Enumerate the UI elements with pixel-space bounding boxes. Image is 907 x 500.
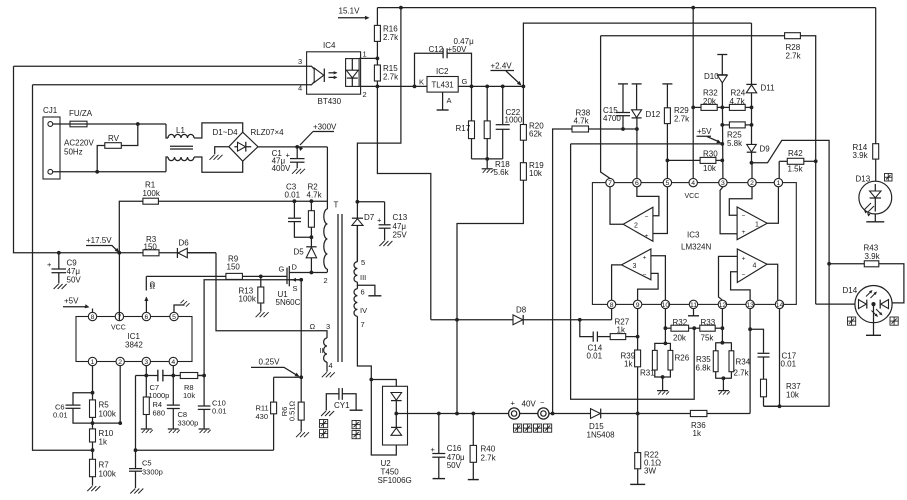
wire R38 sense xyxy=(553,129,572,414)
capacitor C16 xyxy=(438,414,440,454)
svg-text:20k: 20k xyxy=(703,97,717,106)
svg-text:4: 4 xyxy=(753,263,757,270)
resistor R39 xyxy=(637,309,639,350)
diode D15 xyxy=(591,409,601,419)
svg-text:RLZ07×4: RLZ07×4 xyxy=(251,128,285,137)
bridge rectifier D1-D4 xyxy=(229,132,258,161)
wire +5V rail xyxy=(571,143,723,145)
svg-text:1.5k: 1.5k xyxy=(788,165,804,174)
svg-text:680: 680 xyxy=(153,409,166,418)
svg-text:10k: 10k xyxy=(529,169,543,178)
svg-text:150: 150 xyxy=(144,243,158,252)
wire pin3 pin4 RC bus xyxy=(136,375,205,377)
svg-text:5: 5 xyxy=(361,258,365,267)
svg-text:+: + xyxy=(742,229,746,236)
svg-text:100k: 100k xyxy=(99,470,117,479)
wire +300V xyxy=(258,146,327,148)
label cold ground xyxy=(352,421,360,429)
wire winding pin7 to U2 xyxy=(357,316,371,379)
svg-text:10k: 10k xyxy=(183,391,195,400)
transformer winding III xyxy=(356,226,358,262)
svg-text:D12: D12 xyxy=(646,110,661,119)
resistor R42 xyxy=(778,161,780,178)
wire 15.1V rail xyxy=(377,7,875,9)
svg-text:R33: R33 xyxy=(701,318,716,327)
svg-text:1: 1 xyxy=(777,180,781,187)
svg-text:2: 2 xyxy=(118,359,122,366)
wire L top xyxy=(87,123,166,125)
svg-text:50Hz: 50Hz xyxy=(64,148,83,157)
resistor R38 xyxy=(572,126,589,132)
varistor RV xyxy=(97,146,105,172)
wire choke to bridge top xyxy=(194,123,243,138)
svg-text:AC220V: AC220V xyxy=(64,139,94,148)
svg-text:D14: D14 xyxy=(843,286,858,295)
svg-text:1: 1 xyxy=(91,359,95,366)
svg-text:+: + xyxy=(286,151,291,160)
wire D6 to winding II pin3 xyxy=(187,252,216,254)
diode D12 xyxy=(632,83,642,85)
resistor R2 xyxy=(310,201,312,211)
svg-text:3: 3 xyxy=(721,180,725,187)
diode D10 xyxy=(717,54,727,56)
resistor R14 xyxy=(875,8,877,144)
svg-text:+: + xyxy=(643,255,647,262)
wire diagonal D9 to R43 xyxy=(752,140,830,263)
dual LED D14 xyxy=(855,286,892,323)
svg-text:2: 2 xyxy=(750,180,754,187)
op-amp 3 xyxy=(622,249,651,280)
svg-text:D8: D8 xyxy=(516,306,527,315)
svg-text:A: A xyxy=(447,96,452,105)
wire drain xyxy=(289,272,327,274)
svg-text:5: 5 xyxy=(666,180,670,187)
winding tap 6 ground xyxy=(357,282,375,295)
wire K line xyxy=(359,85,427,87)
capacitor CY1 xyxy=(338,388,340,400)
transformer winding IV xyxy=(356,285,358,288)
svg-text:FU/ZA: FU/ZA xyxy=(69,109,93,118)
resistor R30 xyxy=(667,159,700,161)
svg-text:3842: 3842 xyxy=(125,341,143,350)
svg-text:R30: R30 xyxy=(703,150,718,159)
resistor R10 xyxy=(90,429,96,442)
svg-text:2: 2 xyxy=(324,276,328,285)
fuse FU/ZA xyxy=(53,123,70,125)
svg-text:VCC: VCC xyxy=(111,325,126,332)
regulator IC2 TL431 xyxy=(427,77,458,93)
resistors R35 R34 parallel xyxy=(721,309,723,343)
svg-text:+5V: +5V xyxy=(697,127,712,136)
svg-text:D10: D10 xyxy=(704,72,719,81)
svg-text:400V: 400V xyxy=(272,164,291,173)
diode D6 xyxy=(176,248,178,258)
resistor R32 bottom xyxy=(665,327,671,329)
wire +2.4V to D11 xyxy=(523,23,751,86)
svg-text:6: 6 xyxy=(361,288,365,297)
svg-text:2.7k: 2.7k xyxy=(734,369,750,378)
svg-text:C12: C12 xyxy=(429,45,444,54)
wire G +2.4V xyxy=(458,85,523,87)
svg-text:50V: 50V xyxy=(447,461,462,470)
IC3 LM324N box xyxy=(592,183,796,305)
svg-text:D11: D11 xyxy=(761,84,776,93)
opto arrows xyxy=(329,72,337,74)
svg-text:S: S xyxy=(293,284,298,293)
op-amp 1 xyxy=(737,207,767,240)
resistor R15 xyxy=(376,58,378,65)
svg-text:+: + xyxy=(511,399,516,408)
svg-text:+: + xyxy=(431,445,436,454)
svg-text:6: 6 xyxy=(635,180,639,187)
svg-text:75k: 75k xyxy=(701,334,715,343)
svg-text:1k: 1k xyxy=(617,326,626,335)
svg-text:2.7k: 2.7k xyxy=(674,115,690,124)
wire choke to bridge bottom xyxy=(194,157,243,172)
svg-text:0.01: 0.01 xyxy=(587,352,603,361)
opto LED xyxy=(307,66,315,69)
svg-text:4: 4 xyxy=(329,361,333,370)
svg-text:G: G xyxy=(462,77,468,86)
svg-text:13: 13 xyxy=(746,302,754,309)
svg-text:IC4: IC4 xyxy=(323,41,336,50)
svg-text:4.7k: 4.7k xyxy=(307,191,323,200)
wire pin2 feedback xyxy=(119,366,121,423)
resistor R17 xyxy=(471,86,473,121)
svg-text:7: 7 xyxy=(608,180,612,187)
svg-text:10: 10 xyxy=(662,302,670,309)
svg-text:4: 4 xyxy=(171,359,175,366)
svg-text:R17: R17 xyxy=(456,124,471,133)
capacitor C14 + R27 xyxy=(580,320,593,337)
svg-text:10k: 10k xyxy=(786,391,800,400)
output terminal minus xyxy=(538,408,549,419)
svg-text:R32: R32 xyxy=(673,318,688,327)
svg-text:2.7k: 2.7k xyxy=(383,73,399,82)
svg-text:6: 6 xyxy=(145,314,149,321)
svg-text:5.8k: 5.8k xyxy=(727,139,743,148)
svg-text:14: 14 xyxy=(776,302,784,309)
common-mode choke L1 xyxy=(168,134,194,138)
svg-text:R40: R40 xyxy=(481,445,496,454)
svg-text:1000: 1000 xyxy=(505,116,523,125)
resistor R5 xyxy=(92,393,94,400)
wire pin14 down xyxy=(779,309,781,407)
svg-text:CJ1: CJ1 xyxy=(43,106,58,115)
svg-text:9: 9 xyxy=(636,302,640,309)
svg-text:12: 12 xyxy=(719,302,727,309)
resistor R16 xyxy=(376,8,378,26)
resistor R1 xyxy=(119,201,143,253)
svg-text:C5: C5 xyxy=(142,459,152,468)
svg-text:11: 11 xyxy=(690,302,697,309)
svg-text:−: − xyxy=(742,213,746,220)
transformer winding II xyxy=(324,338,327,362)
wire +17.5V rail xyxy=(14,66,217,253)
wire divider bottom ground xyxy=(472,158,503,160)
svg-text:62k: 62k xyxy=(529,130,543,139)
wire 15.1V from winding III xyxy=(357,8,401,202)
svg-text:1: 1 xyxy=(755,222,759,229)
svg-text:5: 5 xyxy=(172,314,176,321)
svg-text:2.7k: 2.7k xyxy=(481,453,497,462)
svg-text:RV: RV xyxy=(108,134,120,143)
svg-text:1k: 1k xyxy=(99,438,108,447)
svg-text:II: II xyxy=(320,346,324,355)
svg-text:2.7k: 2.7k xyxy=(786,52,802,61)
svg-text:4: 4 xyxy=(298,84,302,93)
svg-text:50V: 50V xyxy=(67,276,82,285)
svg-text:8: 8 xyxy=(91,314,95,321)
wire pin1 divider xyxy=(92,366,94,393)
svg-text:0.51Ω: 0.51Ω xyxy=(288,401,297,422)
svg-text:2: 2 xyxy=(634,223,638,230)
output terminal plus xyxy=(508,408,519,419)
svg-text:6.8k: 6.8k xyxy=(696,364,712,373)
capacitor C1 xyxy=(296,147,298,158)
capacitor C5 xyxy=(135,376,137,451)
capacitor C3 xyxy=(293,201,295,218)
svg-text:430: 430 xyxy=(256,412,269,421)
svg-text:TL431: TL431 xyxy=(432,81,454,90)
resistor R32 top xyxy=(693,106,701,108)
resistor R36 xyxy=(690,410,707,416)
wire source xyxy=(289,279,301,281)
capacitor C15 xyxy=(618,83,628,85)
wire D14 ground xyxy=(873,304,875,335)
svg-text:4700: 4700 xyxy=(603,114,621,123)
svg-text:D: D xyxy=(292,263,298,272)
resistor R4 xyxy=(145,376,147,398)
opto photodiode xyxy=(351,59,353,71)
svg-text:25V: 25V xyxy=(393,231,408,240)
svg-text:R5: R5 xyxy=(99,401,110,410)
wire pin7 to +17.5V xyxy=(118,253,120,321)
svg-text:−: − xyxy=(645,214,649,221)
diode D9 xyxy=(747,144,757,152)
capacitor C10 xyxy=(203,376,205,406)
svg-text:1000p: 1000p xyxy=(149,391,170,400)
svg-text:+: + xyxy=(377,216,382,225)
resistor R7 xyxy=(90,459,96,476)
svg-text:C16: C16 xyxy=(447,444,462,453)
svg-text:+5V: +5V xyxy=(64,297,79,306)
svg-text:1k: 1k xyxy=(624,360,633,369)
svg-text:C13: C13 xyxy=(393,213,408,222)
svg-text:+17.5V: +17.5V xyxy=(86,236,112,245)
svg-text:1: 1 xyxy=(363,50,367,59)
svg-text:BT430: BT430 xyxy=(318,97,342,106)
wire N bottom xyxy=(53,171,166,173)
resistor R18 xyxy=(486,86,488,121)
capacitor C7 xyxy=(157,370,159,382)
svg-text:7: 7 xyxy=(361,320,365,329)
svg-text:−: − xyxy=(742,272,746,279)
svg-text:+50V: +50V xyxy=(448,45,468,54)
resistor R24 xyxy=(722,106,729,108)
resistor R3 xyxy=(143,250,159,256)
wire D13 ground xyxy=(874,214,876,222)
svg-text:1N5408: 1N5408 xyxy=(587,431,616,440)
svg-text:3.9k: 3.9k xyxy=(865,252,881,261)
op-amp 2 xyxy=(623,207,653,241)
svg-text:III: III xyxy=(360,273,366,282)
svg-text:+: + xyxy=(645,233,649,240)
svg-text:100k: 100k xyxy=(239,295,257,304)
resistor R28 xyxy=(601,35,785,37)
svg-text:IC3: IC3 xyxy=(687,231,700,240)
bridge ground xyxy=(215,147,229,155)
wire U2 loop xyxy=(369,378,373,382)
diode D7 xyxy=(352,217,363,219)
resistor R22 xyxy=(637,414,639,453)
svg-text:R26: R26 xyxy=(675,354,690,363)
wire opto feed to D8 comparator xyxy=(377,86,430,319)
wire opto pin1 xyxy=(359,57,377,59)
diode D5 xyxy=(306,246,316,248)
svg-text:D5: D5 xyxy=(294,248,305,257)
svg-text:3: 3 xyxy=(326,322,330,331)
svg-text:1k: 1k xyxy=(693,429,702,438)
wire VCC line xyxy=(692,8,694,179)
wire output rail xyxy=(396,413,508,415)
wire output sense to pin13 xyxy=(749,329,751,413)
wire pin3 sense xyxy=(204,280,301,376)
resistor R37 xyxy=(761,379,767,397)
svg-text:K: K xyxy=(419,78,424,87)
svg-text:3W: 3W xyxy=(644,467,656,476)
resistor R8 xyxy=(180,373,197,379)
svg-text:150: 150 xyxy=(227,263,241,272)
op-amp 4 xyxy=(737,249,767,283)
resistor R6 xyxy=(300,377,302,402)
label DC output xyxy=(514,424,522,432)
connector CJ1 xyxy=(43,117,60,179)
transformer core xyxy=(337,214,339,362)
wire pin13 line xyxy=(749,309,751,330)
resistor R9 xyxy=(146,275,226,277)
wire red LED drive xyxy=(815,161,817,304)
capacitor C17 xyxy=(750,329,763,353)
svg-text:G: G xyxy=(279,265,285,274)
svg-text:+: + xyxy=(742,256,746,263)
svg-text:3: 3 xyxy=(633,263,637,270)
wire +5V down leg xyxy=(571,144,695,399)
svg-text:4: 4 xyxy=(691,180,695,187)
capacitor C8 xyxy=(172,376,174,405)
wire D8 rail xyxy=(431,319,612,321)
svg-text:8: 8 xyxy=(610,302,614,309)
svg-text:SF1006G: SF1006G xyxy=(378,476,412,485)
svg-text:15.1V: 15.1V xyxy=(339,7,361,16)
svg-text:R7: R7 xyxy=(99,461,110,470)
svg-text:D1~D4: D1~D4 xyxy=(213,128,239,137)
svg-text:D7: D7 xyxy=(364,213,375,222)
svg-text:4.7k: 4.7k xyxy=(730,97,746,106)
svg-text:3300p: 3300p xyxy=(142,468,163,477)
net stub omega gate xyxy=(145,276,147,290)
resistor R11 xyxy=(273,414,275,450)
svg-text:D6: D6 xyxy=(179,239,190,248)
svg-text:0.01: 0.01 xyxy=(212,407,227,416)
svg-text:0.01: 0.01 xyxy=(53,411,68,420)
svg-text:10k: 10k xyxy=(703,164,717,173)
svg-text:2.7k: 2.7k xyxy=(383,33,399,42)
svg-text:−: − xyxy=(643,272,647,279)
svg-text:+2.4V: +2.4V xyxy=(491,62,513,71)
svg-text:3: 3 xyxy=(144,359,148,366)
svg-text:Ω: Ω xyxy=(310,322,316,331)
diode D11 xyxy=(751,23,753,84)
wire green leg down xyxy=(764,264,829,407)
svg-text:+: + xyxy=(47,260,52,269)
svg-text:3: 3 xyxy=(298,57,302,66)
svg-text:IV: IV xyxy=(360,306,367,315)
wire opto pin4 left xyxy=(33,84,307,86)
svg-text:40V: 40V xyxy=(522,400,537,409)
svg-text:0.01: 0.01 xyxy=(285,191,301,200)
svg-text:T: T xyxy=(334,201,339,210)
resistors R31 R26 parallel xyxy=(664,309,666,344)
resistor R13 xyxy=(260,276,262,287)
IC1 3842 box xyxy=(76,317,192,362)
resistor R19 xyxy=(520,163,526,181)
TL431 anode stub xyxy=(442,92,444,110)
svg-text:100k: 100k xyxy=(99,410,117,419)
svg-text:D9: D9 xyxy=(760,145,771,154)
capacitor C13 xyxy=(357,201,384,203)
svg-text:D13: D13 xyxy=(856,175,871,184)
capacitor C12 xyxy=(415,53,444,86)
label hot ground xyxy=(320,420,328,428)
svg-text:2: 2 xyxy=(363,90,367,99)
svg-text:5N60C: 5N60C xyxy=(276,298,301,307)
svg-text:L1: L1 xyxy=(176,126,185,135)
svg-text:20k: 20k xyxy=(673,334,687,343)
wire C5 to R11 xyxy=(136,449,274,451)
optocoupler IC4 BT430 xyxy=(307,52,361,94)
svg-text:3.9k: 3.9k xyxy=(853,151,869,160)
dual diode U2 xyxy=(383,386,408,445)
stub pin11 ground xyxy=(693,309,695,316)
resistor R29 xyxy=(662,83,672,85)
resistor R25 xyxy=(722,124,729,126)
capacitor C6 xyxy=(73,393,93,405)
svg-text:R34: R34 xyxy=(736,358,751,367)
svg-text:CY1: CY1 xyxy=(334,401,350,410)
svg-text:3300p: 3300p xyxy=(178,419,199,428)
resistor R43 xyxy=(829,263,864,265)
svg-text:Ω: Ω xyxy=(150,282,156,291)
resistor R40 xyxy=(472,414,474,446)
svg-text:R31: R31 xyxy=(640,369,655,378)
svg-text:4.7k: 4.7k xyxy=(574,117,590,126)
svg-text:LM324N: LM324N xyxy=(681,243,711,252)
wire opto pin3 left xyxy=(14,65,307,67)
wire opto pin4 to divider xyxy=(33,85,93,450)
resistor R33 xyxy=(700,325,715,331)
diode D8 xyxy=(513,315,523,325)
LED D13 xyxy=(859,181,892,214)
svg-text:−: − xyxy=(540,398,545,407)
svg-text:IC2: IC2 xyxy=(436,67,449,76)
capacitor C9 xyxy=(58,253,60,269)
svg-text:0.25V: 0.25V xyxy=(259,358,281,367)
svg-text:R42: R42 xyxy=(788,149,803,158)
transformer winding I primary xyxy=(326,147,328,209)
stub pin5 sync xyxy=(174,305,185,312)
svg-text:+300V: +300V xyxy=(313,123,337,132)
